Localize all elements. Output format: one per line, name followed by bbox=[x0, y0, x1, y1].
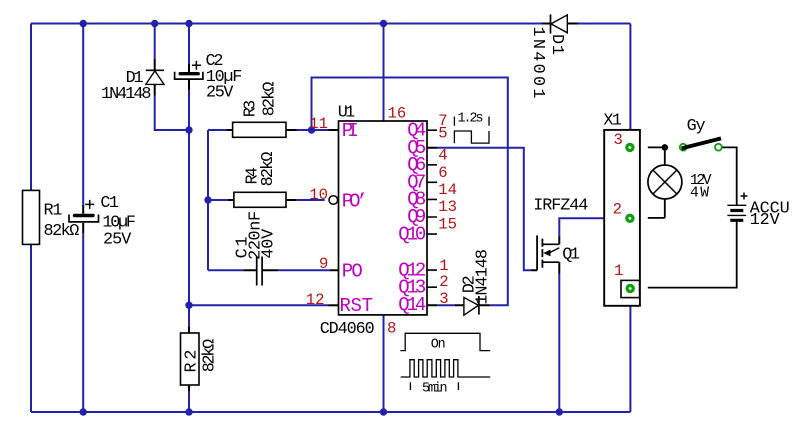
svg-text:9: 9 bbox=[319, 255, 328, 273]
pin name Q4 bbox=[407, 119, 426, 141]
connector X1 pin1 square bbox=[621, 280, 640, 297]
svg-text:10: 10 bbox=[309, 186, 328, 204]
svg-text:5min: 5min bbox=[422, 381, 448, 396]
junction top rail x=383 bbox=[380, 20, 387, 27]
pin number 3 bbox=[439, 290, 448, 308]
svg-text:12: 12 bbox=[306, 291, 325, 309]
svg-text:Q14: Q14 bbox=[398, 294, 426, 316]
svg-text:Gy: Gy bbox=[687, 117, 706, 136]
junction bottom rail x=83 bbox=[80, 408, 87, 415]
svg-text:X1: X1 bbox=[603, 111, 622, 130]
svg-text:R1: R1 bbox=[44, 201, 63, 220]
pin name Q12 bbox=[398, 259, 426, 281]
svg-text:PO’: PO’ bbox=[342, 191, 368, 213]
svg-text:CD4060: CD4060 bbox=[320, 320, 375, 339]
waveform On pulse bbox=[400, 333, 490, 352]
svg-text:R3: R3 bbox=[242, 100, 261, 118]
svg-text:82kΩ: 82kΩ bbox=[259, 152, 278, 187]
pin number 9 bbox=[319, 255, 328, 273]
junction bottom rail x=559 bbox=[556, 408, 563, 415]
svg-text:13: 13 bbox=[438, 198, 457, 216]
waveform 5min oscillator bbox=[401, 360, 491, 397]
switch Gy bbox=[680, 117, 722, 150]
pin number 1 bbox=[439, 257, 448, 275]
wire left rail bbox=[30, 24, 32, 413]
pin number 11 bbox=[309, 115, 328, 133]
resistor R3 bbox=[233, 82, 286, 138]
wire switch to battery bbox=[722, 147, 737, 205]
svg-text:6: 6 bbox=[438, 164, 447, 182]
resistor R2 bbox=[181, 333, 220, 385]
svg-text:82kΩ: 82kΩ bbox=[44, 222, 80, 241]
junction lamp-switch node bbox=[662, 144, 669, 151]
svg-text:82kΩ: 82kΩ bbox=[201, 339, 220, 373]
battery ACCU 12V bbox=[727, 193, 789, 231]
junction R4 node bbox=[204, 196, 211, 203]
diode D1 1N4148 bbox=[101, 69, 164, 104]
pin number 6 bbox=[438, 164, 447, 182]
svg-text:40V: 40V bbox=[259, 229, 278, 259]
svg-text:PI: PI bbox=[342, 120, 359, 142]
svg-text:1N4148: 1N4148 bbox=[101, 85, 152, 104]
wire R4 leads bbox=[208, 199, 325, 201]
svg-text:25V: 25V bbox=[206, 84, 234, 103]
wire C1 branch bbox=[82, 24, 84, 413]
pin number 16 bbox=[388, 104, 407, 122]
pin stubs U1 right side bbox=[427, 130, 437, 287]
svg-text:Q1: Q1 bbox=[562, 245, 580, 264]
svg-text:C1: C1 bbox=[100, 194, 119, 213]
svg-text:82kΩ: 82kΩ bbox=[261, 82, 280, 117]
pin name Q7 bbox=[407, 172, 426, 194]
capacitor C2 10uF electrolytic bbox=[175, 52, 243, 103]
resistor R1 bbox=[23, 190, 80, 244]
svg-text:Q10: Q10 bbox=[398, 223, 426, 245]
svg-text:2: 2 bbox=[613, 201, 622, 219]
pin number 8 bbox=[387, 320, 396, 338]
junction top rail x=189 bbox=[185, 20, 192, 27]
junction bottom rail x=383 bbox=[380, 408, 387, 415]
connector X1 pin2 bbox=[613, 201, 635, 224]
junction RST node bbox=[185, 302, 192, 309]
wire drain to X1 pin2 bbox=[559, 218, 630, 244]
pin name PI bbox=[342, 120, 359, 142]
op IC U1 CD4060 box bbox=[320, 103, 427, 339]
junction D1-C2 node bbox=[185, 126, 192, 133]
svg-text:IRFZ44: IRFZ44 bbox=[533, 196, 588, 215]
junction PI node bbox=[308, 126, 315, 133]
wire C1-220nF row bbox=[208, 269, 339, 271]
pin name Q9 bbox=[407, 206, 426, 228]
pin number 10 bbox=[309, 186, 328, 204]
lamp 12V 4W bbox=[648, 165, 712, 202]
pin bubble PO' pin10 bbox=[329, 196, 338, 205]
junction top rail x=155 bbox=[151, 20, 158, 27]
svg-text:12V: 12V bbox=[750, 211, 780, 230]
pin number 15 bbox=[438, 216, 457, 234]
svg-text:10µF: 10µF bbox=[102, 213, 135, 232]
capacitor C1 220nF bbox=[234, 211, 279, 286]
wire pin16 bbox=[383, 24, 385, 122]
wire Q14 to D2 bbox=[427, 304, 490, 306]
svg-text:1.2s: 1.2s bbox=[458, 112, 484, 127]
pin number 4 bbox=[438, 147, 447, 165]
pin name Q13 bbox=[398, 276, 426, 298]
svg-text:3: 3 bbox=[439, 290, 448, 308]
pin name Q10 bbox=[398, 223, 426, 245]
junction top rail x=83 bbox=[80, 20, 87, 27]
wire RST net bbox=[189, 304, 339, 306]
wire battery minus to X1 pin1 bbox=[648, 222, 737, 288]
wire R3 leads bbox=[208, 129, 297, 131]
wire D1 branch bbox=[155, 24, 189, 131]
waveform 1.2s bbox=[454, 112, 489, 144]
svg-text:PO: PO bbox=[342, 261, 363, 283]
diode D2 1N4148 bbox=[461, 249, 493, 315]
wire bottom rail bbox=[31, 292, 630, 412]
wire X1 pin3 to switch bbox=[648, 146, 665, 148]
svg-text:D1: D1 bbox=[547, 34, 566, 55]
wire C2 branch bbox=[188, 24, 190, 413]
pin name Q8 bbox=[407, 189, 426, 211]
connector X1 pin3 bbox=[613, 131, 634, 152]
svg-text:4W: 4W bbox=[690, 186, 709, 202]
pin name PO' bbox=[342, 191, 368, 213]
svg-text:16: 16 bbox=[388, 104, 407, 122]
wire R3-R4-C1 vertical bbox=[207, 130, 209, 270]
pin name Q6 bbox=[407, 154, 426, 176]
wire pin8 bbox=[383, 315, 385, 412]
pin name Q14 bbox=[398, 294, 426, 316]
svg-text:1N4148: 1N4148 bbox=[473, 249, 492, 305]
connector X1 pin1 bbox=[614, 262, 635, 293]
svg-text:25V: 25V bbox=[103, 231, 131, 250]
pin number 12 bbox=[306, 291, 325, 309]
svg-text:11: 11 bbox=[309, 115, 328, 133]
transistor Q1 IRFZ44 bbox=[533, 196, 588, 270]
svg-text:RST: RST bbox=[340, 295, 374, 317]
wire Q5 to gate bbox=[427, 148, 537, 271]
svg-text:On: On bbox=[431, 337, 446, 352]
svg-text:4: 4 bbox=[438, 147, 447, 165]
connector X1 box bbox=[603, 111, 640, 305]
pin number 5 bbox=[438, 124, 447, 142]
junction bottom rail x=189 bbox=[185, 408, 192, 415]
wire PI feedback net bbox=[297, 78, 508, 306]
wire top rail bbox=[31, 24, 630, 145]
svg-text:5: 5 bbox=[438, 124, 447, 142]
pin name RST bbox=[340, 295, 374, 317]
pin number 13 bbox=[438, 198, 457, 216]
pin number 14 bbox=[438, 181, 457, 199]
wire lamp leads bbox=[648, 147, 665, 218]
resistor R4 bbox=[234, 152, 286, 208]
pin number 7 bbox=[438, 112, 447, 130]
svg-text:1: 1 bbox=[614, 262, 623, 280]
pin name Q5 bbox=[407, 137, 426, 159]
svg-text:15: 15 bbox=[438, 216, 457, 234]
diode ZD1 1N4001 bbox=[528, 14, 578, 98]
svg-text:8: 8 bbox=[387, 320, 396, 338]
svg-text:3: 3 bbox=[613, 131, 622, 149]
wire source to ground rail bbox=[558, 262, 560, 412]
pin number 2 bbox=[439, 273, 448, 291]
pin name PO bbox=[342, 261, 363, 283]
svg-text:2: 2 bbox=[439, 273, 448, 291]
svg-text:14: 14 bbox=[438, 181, 457, 199]
capacitor C1 10uF electrolytic bbox=[69, 194, 136, 250]
